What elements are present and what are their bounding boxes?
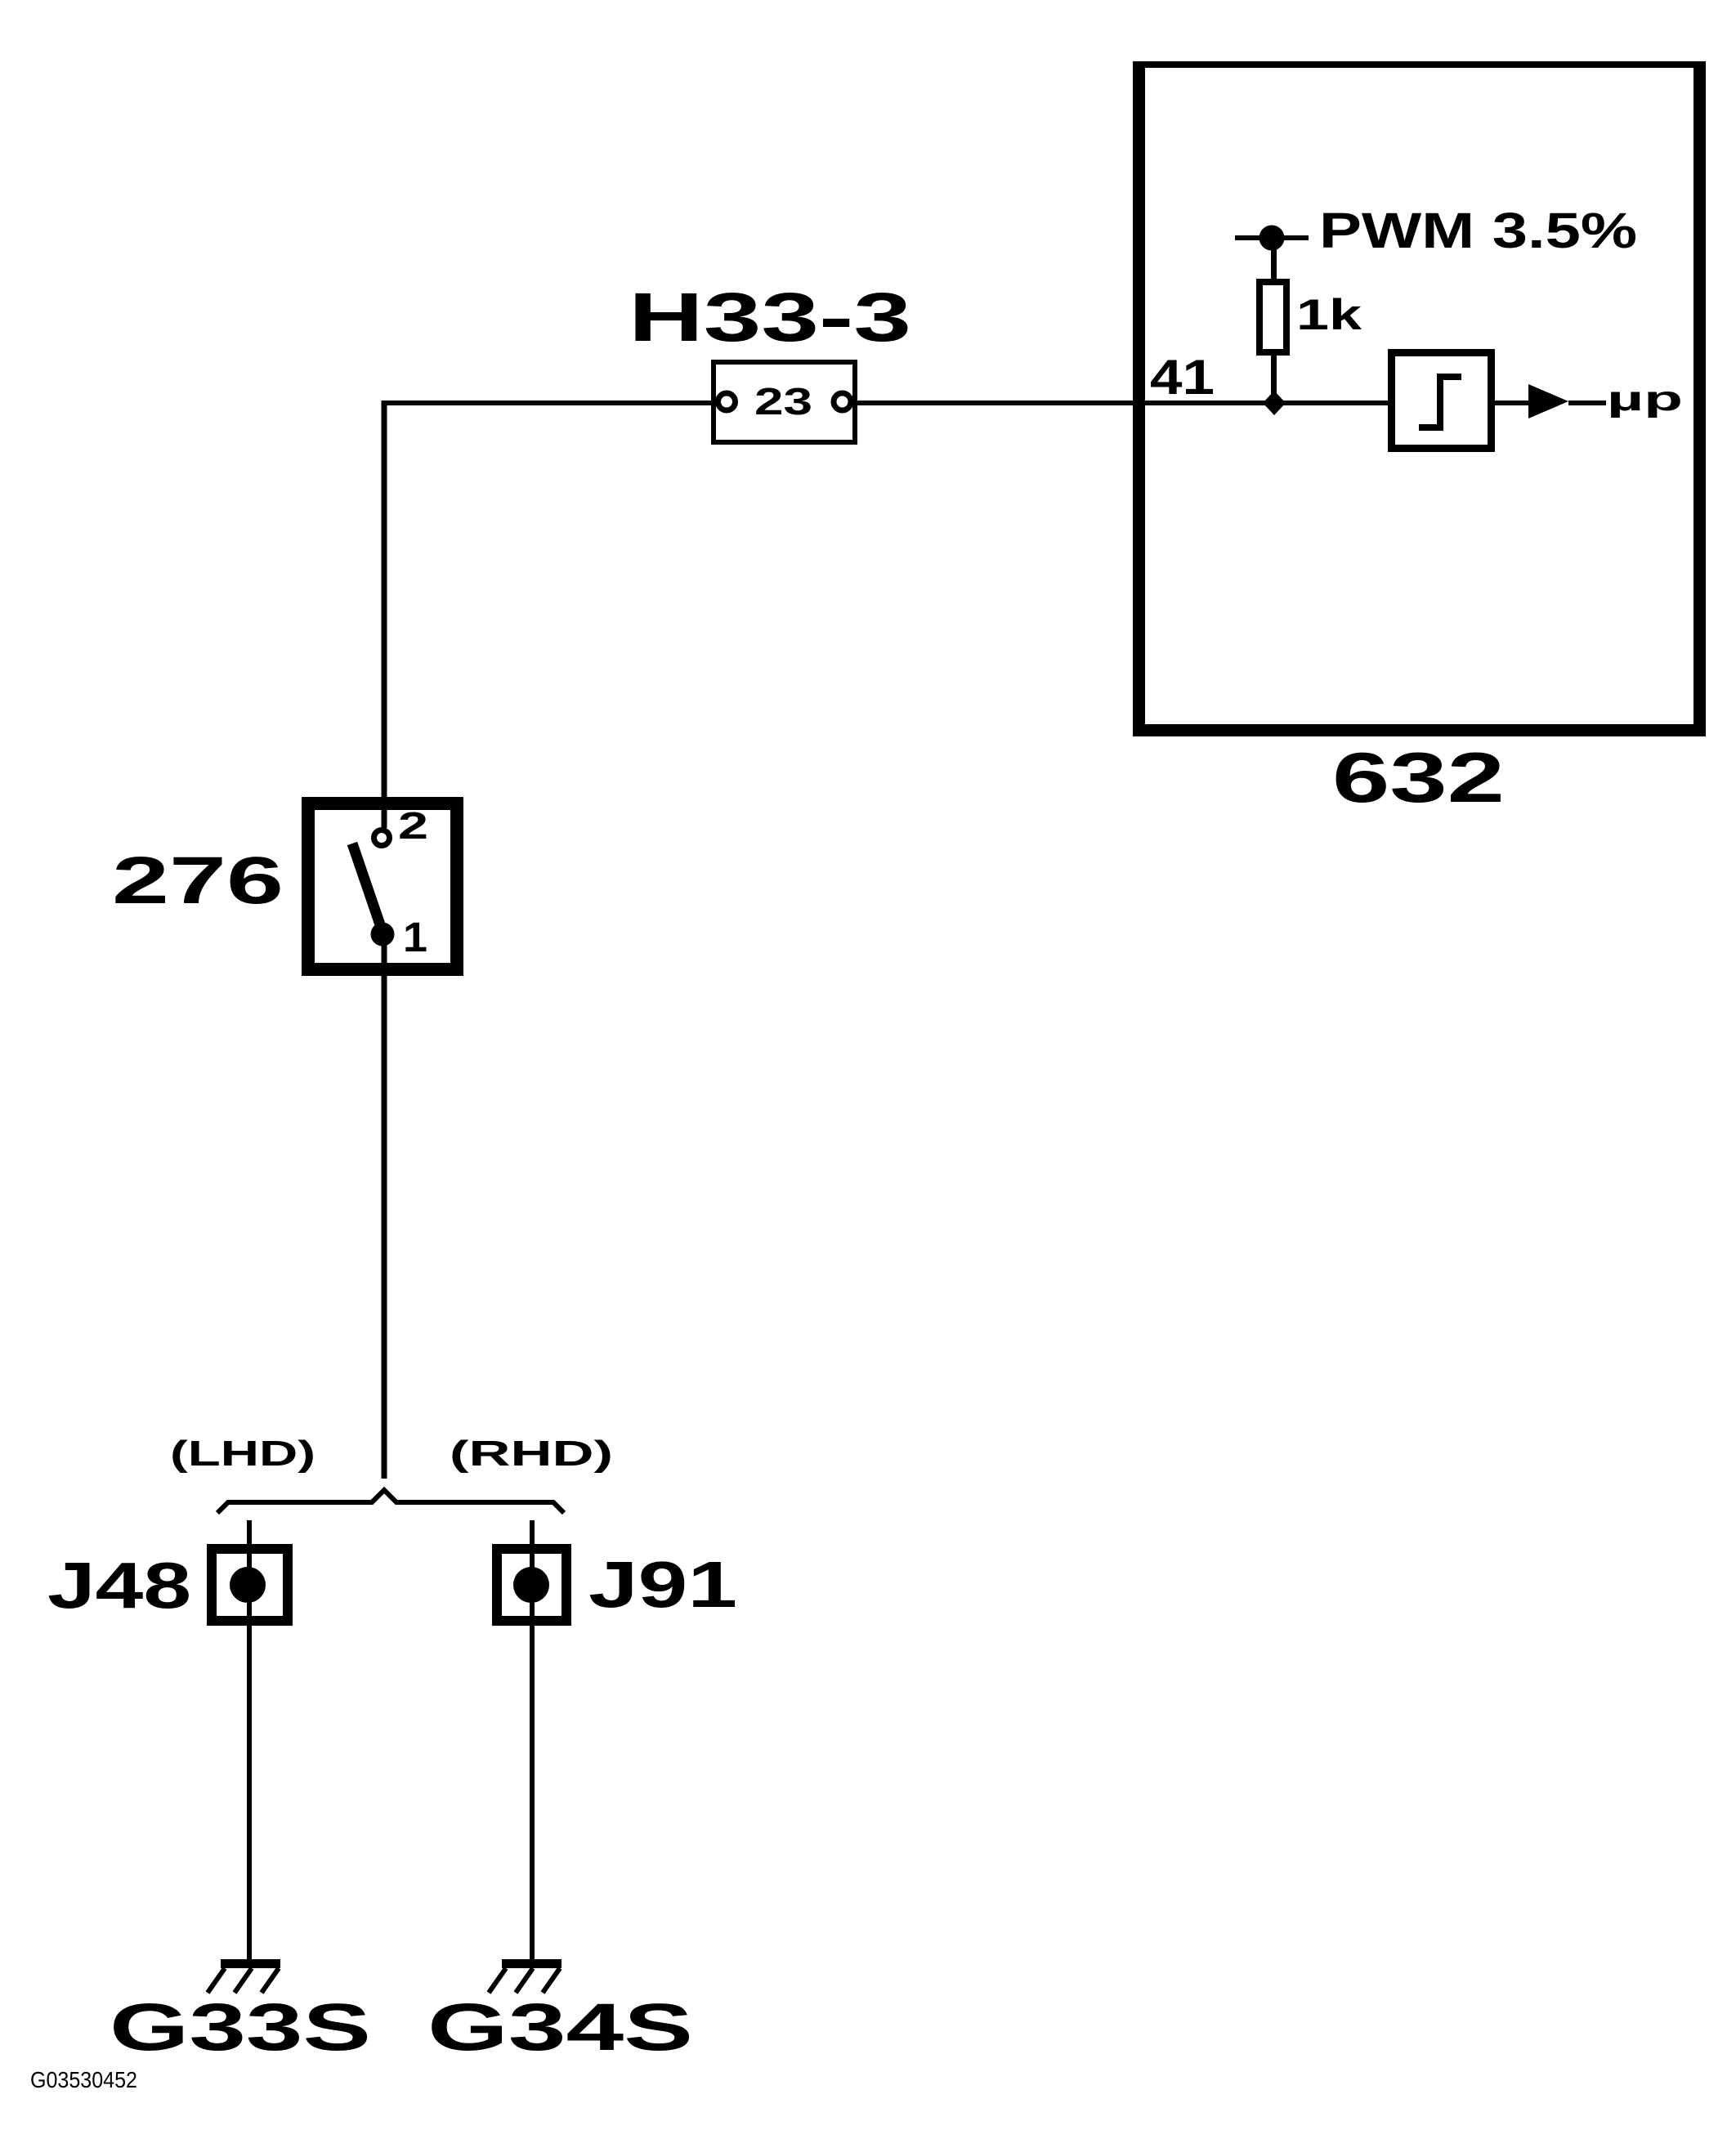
wire: comparator to arrowhead [1495, 401, 1528, 405]
ground symbol G33S [208, 1959, 280, 1993]
splice J91 box [497, 1549, 566, 1621]
svg-text:J48: J48 [47, 1549, 191, 1622]
wire: arrowhead to up label [1568, 401, 1606, 405]
PWM node dot [1259, 226, 1285, 251]
resistor 1k [1259, 282, 1286, 352]
connector H33-3 box [714, 362, 855, 442]
svg-text:2: 2 [398, 804, 428, 847]
svg-text:(RHD): (RHD) [450, 1434, 613, 1474]
switch pin 1 contact dot [371, 923, 395, 946]
svg-text:G03530452: G03530452 [30, 2067, 137, 2092]
threshold step symbol [1419, 374, 1461, 431]
switch pin 2 ring [374, 830, 390, 846]
ground symbol G34S [489, 1959, 562, 1993]
svg-text:PWM 3.5%: PWM 3.5% [1319, 203, 1637, 258]
splice J48 box [212, 1549, 288, 1621]
wire: resistor to junction [1271, 356, 1277, 405]
arrowhead [1528, 384, 1568, 418]
brace [217, 1490, 564, 1513]
svg-text:1: 1 [403, 914, 427, 960]
svg-text:23: 23 [754, 380, 812, 423]
comparator threshold block [1392, 353, 1492, 449]
svg-text:µp: µp [1607, 379, 1683, 418]
svg-text:G34S: G34S [427, 1990, 693, 2065]
svg-text:(LHD): (LHD) [170, 1434, 315, 1474]
wire: vertical wire from corner down into switch 276 [382, 401, 387, 828]
svg-text:J91: J91 [588, 1548, 737, 1621]
node junction diamond on pin 41 wire [1263, 391, 1286, 415]
wire: H33-3 to module pin 41 [853, 401, 1388, 405]
wire: PWM node to resistor [1271, 238, 1277, 282]
wire: brace to splice J48 and ground [247, 1520, 252, 1959]
wire: switch 276 down to brace [382, 934, 387, 1479]
H33-3 left pin ring [718, 393, 736, 410]
switch 276 box [308, 803, 457, 969]
svg-text:632: 632 [1332, 739, 1505, 817]
svg-text:41: 41 [1150, 350, 1215, 405]
H33-3 right pin ring [834, 393, 851, 410]
svg-text:1k: 1k [1296, 291, 1362, 339]
svg-text:H33-3: H33-3 [629, 279, 911, 356]
control module 632 box [1133, 61, 1706, 736]
switch lever [352, 844, 383, 932]
splice J91 dot [513, 1567, 549, 1603]
PWM node tick [1235, 235, 1309, 240]
svg-text:276: 276 [112, 844, 284, 918]
svg-text:G33S: G33S [110, 1990, 371, 2065]
splice J48 dot [230, 1567, 266, 1603]
wire: main horizontal wire to H33-3 [382, 401, 716, 405]
wire: brace to splice J91 and ground [530, 1520, 535, 1959]
